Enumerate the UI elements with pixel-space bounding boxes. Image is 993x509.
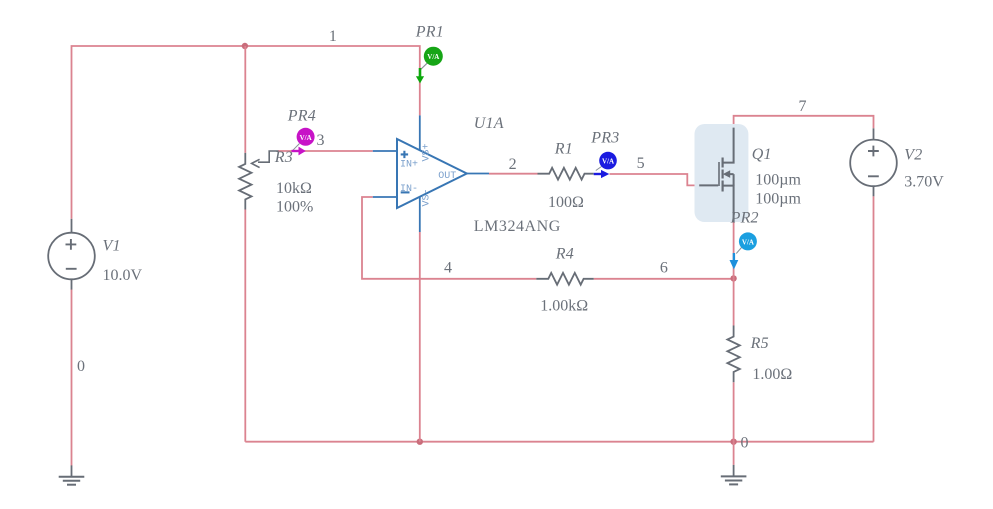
transistor Q1	[699, 128, 733, 222]
wire net 1 (V1 top, top bus, down to op-amp VS+)	[72, 46, 420, 219]
svg-text:100µm: 100µm	[755, 171, 801, 188]
junction net 6	[730, 275, 736, 281]
wire op-amp VS- to bus	[419, 232, 421, 442]
wire Q1 source to net 6 junction	[733, 222, 735, 278]
svg-text:V/A: V/A	[742, 238, 754, 246]
svg-text:R4: R4	[555, 245, 574, 262]
svg-text:IN+: IN+	[400, 159, 418, 170]
svg-text:V1: V1	[103, 237, 121, 254]
resistor R4	[536, 273, 593, 285]
voltage source V1	[48, 219, 95, 290]
MOSFET Q1 highlight	[695, 124, 749, 222]
svg-text:V/A: V/A	[602, 158, 614, 166]
potentiometer R3	[239, 151, 278, 210]
svg-text:6: 6	[660, 260, 668, 277]
junction bottom bus / op-amp VS-	[417, 439, 423, 445]
ground under V1	[59, 465, 85, 484]
svg-text:PR4: PR4	[287, 107, 316, 124]
wire R5 top	[733, 278, 735, 325]
svg-text:2: 2	[509, 156, 517, 173]
probe PR4	[292, 128, 315, 156]
Q1 bulk arrow head	[723, 170, 730, 178]
svg-text:V2: V2	[904, 147, 922, 164]
svg-text:R3: R3	[274, 149, 293, 166]
junction bottom bus / R5	[730, 439, 736, 445]
svg-text:PR1: PR1	[415, 24, 444, 41]
probe PR1	[416, 47, 443, 84]
svg-text:10.0V: 10.0V	[103, 267, 143, 284]
svg-text:V/A: V/A	[427, 53, 439, 61]
wire net 3 (wiper to op-amp IN+)	[278, 150, 373, 152]
op-amp U1A	[373, 115, 489, 232]
wire bottom bus net 0	[245, 441, 873, 443]
svg-text:100Ω: 100Ω	[548, 194, 584, 211]
wire net 2 (op-amp OUT to R1)	[489, 173, 538, 175]
R3 wiper arrow	[252, 159, 260, 167]
wire net 6 (R4 to junction)	[594, 278, 734, 280]
svg-text:VS-: VS-	[422, 188, 433, 206]
svg-text:7: 7	[799, 98, 807, 115]
svg-text:5: 5	[637, 155, 645, 172]
svg-text:0: 0	[741, 435, 749, 452]
svg-text:4: 4	[444, 260, 452, 277]
svg-text:R1: R1	[554, 140, 573, 157]
probe PR3	[594, 152, 617, 178]
svg-text:10kΩ: 10kΩ	[276, 180, 312, 197]
wire net 4 (IN- feedback to R4)	[362, 197, 536, 279]
ground under R5	[721, 465, 747, 485]
svg-text:3: 3	[317, 132, 325, 149]
wire net 5 (R1 to Q1 gate)	[610, 174, 700, 185]
svg-text:LM324ANG: LM324ANG	[474, 218, 561, 235]
svg-text:1.00kΩ: 1.00kΩ	[540, 298, 588, 315]
wire R3 bottom to bus	[244, 210, 246, 442]
probe PR2	[730, 232, 757, 269]
resistor R1	[538, 168, 594, 180]
wire net 0 (V1 bottom to ground)	[71, 290, 73, 466]
wire net 7 (Q1 drain to V2 top)	[734, 116, 874, 129]
junction net 1 at R3 branch	[242, 43, 248, 49]
wire V2 bottom to bus	[873, 196, 875, 441]
svg-text:VS+: VS+	[422, 143, 433, 161]
svg-text:1.00Ω: 1.00Ω	[752, 366, 792, 383]
svg-text:100µm: 100µm	[755, 190, 801, 207]
svg-text:1: 1	[329, 28, 337, 45]
svg-text:0: 0	[77, 358, 85, 375]
voltage source V2	[850, 128, 897, 196]
svg-text:PR3: PR3	[590, 130, 619, 147]
svg-text:3.70V: 3.70V	[904, 174, 944, 191]
resistor R5	[727, 326, 739, 383]
svg-text:IN-: IN-	[400, 184, 418, 195]
svg-text:Q1: Q1	[752, 146, 772, 163]
svg-text:OUT: OUT	[438, 171, 456, 182]
svg-text:R5: R5	[750, 335, 769, 352]
wire R5 bottom to bus and ground	[733, 382, 735, 465]
svg-text:U1A: U1A	[474, 115, 504, 132]
wire R3 top branch	[244, 46, 246, 153]
svg-text:PR2: PR2	[730, 210, 759, 227]
svg-text:100%: 100%	[276, 199, 313, 216]
svg-text:V/A: V/A	[300, 134, 312, 142]
